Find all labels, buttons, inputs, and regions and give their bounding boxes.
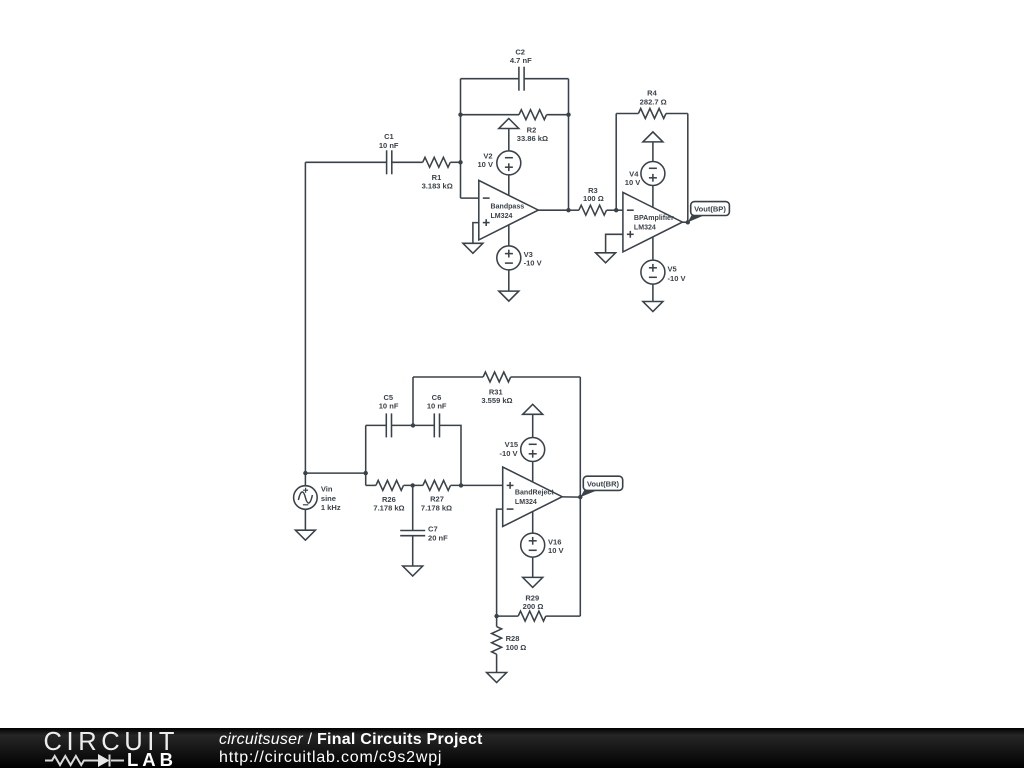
wire C5 to C6 <box>392 424 434 426</box>
node U1 output <box>566 208 570 212</box>
svg-text:33.86 kΩ: 33.86 kΩ <box>517 134 548 143</box>
wire left vertical R4 loop <box>615 114 617 211</box>
resistor R28 <box>492 627 527 655</box>
flag Vout(BP) <box>688 202 730 223</box>
footer bar <box>0 728 1024 768</box>
wire R2 row right <box>547 114 569 116</box>
svg-text:LM324: LM324 <box>634 224 656 231</box>
svg-text:3.559 kΩ: 3.559 kΩ <box>481 396 512 405</box>
node R1 junction <box>458 160 462 164</box>
svg-text:1 kHz: 1 kHz <box>321 503 341 512</box>
node mid res row <box>411 483 415 487</box>
wire R28 bottom lead <box>496 654 498 672</box>
wire R1 to node <box>450 161 460 163</box>
wire C7 to ground <box>412 536 414 566</box>
wire U2 V- pin to V5 <box>652 237 654 260</box>
node mid cap row <box>411 423 415 427</box>
voltage source V5 <box>641 260 686 284</box>
node R2 left <box>458 113 462 117</box>
wire to inverting input of U2 <box>616 209 623 211</box>
resistor R3 <box>579 186 607 215</box>
svg-text:10 V: 10 V <box>548 546 564 555</box>
wire V4 to flipped ground <box>652 142 654 162</box>
ground flipped above V4 <box>643 132 663 142</box>
svg-text:282.7 Ω: 282.7 Ω <box>640 97 667 106</box>
wire U1 V- pin to V3 <box>508 225 510 246</box>
ground below Vin <box>295 530 315 540</box>
svg-text:BandReject: BandReject <box>515 490 554 497</box>
resistor R31 <box>481 372 512 405</box>
capacitor C7 <box>400 525 448 543</box>
voltage source V4 <box>625 162 665 187</box>
node R2 right <box>566 113 570 117</box>
wire non-inverting input hook <box>473 223 479 244</box>
svg-text:100 Ω: 100 Ω <box>583 194 604 203</box>
wire right vertical R4 loop <box>687 114 689 223</box>
wire right vertical feedback <box>579 377 581 616</box>
svg-text:Bandpass: Bandpass <box>491 204 525 211</box>
svg-text:LM324: LM324 <box>491 213 513 220</box>
svg-text:sine: sine <box>321 494 336 503</box>
wire V2 to flipped ground <box>508 129 510 152</box>
resistor R27 <box>421 480 452 512</box>
svg-text:R27: R27 <box>430 495 444 504</box>
svg-text:LAB: LAB <box>127 749 177 769</box>
voltage source Vin sine <box>294 485 341 513</box>
resistor R29 <box>518 593 546 621</box>
op-amp U3 BandReject <box>503 467 563 527</box>
ground below V16 <box>523 577 543 587</box>
svg-text:Vout(BP): Vout(BP) <box>694 205 726 214</box>
wire to inverting input of U1 <box>461 197 479 199</box>
svg-text:10 V: 10 V <box>625 178 641 187</box>
svg-text:20 nF: 20 nF <box>428 534 448 543</box>
wire U3 V+ pin to V15 <box>532 461 534 481</box>
wire R29 row right <box>546 615 581 617</box>
svg-text:Vout(BR): Vout(BR) <box>587 480 620 489</box>
svg-text:Vin: Vin <box>321 485 333 494</box>
node left branch <box>364 471 368 475</box>
wire R3 to node <box>607 209 617 211</box>
resistor R2 <box>517 110 548 143</box>
wire U1 V+ pin to V2 <box>508 175 510 196</box>
wire right vertical C2/R2 loop <box>568 79 570 211</box>
svg-text:V5: V5 <box>668 265 677 274</box>
svg-text:-10 V: -10 V <box>524 259 542 268</box>
resistor R26 <box>373 480 404 512</box>
svg-text:LM324: LM324 <box>515 499 537 506</box>
wire output to R3 <box>569 209 579 211</box>
wire U1 output <box>538 209 568 211</box>
svg-text:-10 V: -10 V <box>500 449 518 458</box>
capacitor C2 <box>510 48 532 91</box>
wire left vertical cap-res branch <box>365 425 367 485</box>
wire V5 to ground <box>652 284 654 302</box>
op-amp U2 BPAmplifier <box>623 192 683 252</box>
wire R31 row left <box>413 376 483 378</box>
wire R2 row left <box>461 114 520 116</box>
logo CircuitLab <box>40 729 200 774</box>
node R3 junction <box>614 208 618 212</box>
wire R28 top lead <box>496 616 498 627</box>
wire U2 V+ pin to V4 <box>652 185 654 207</box>
svg-text:3.183 kΩ: 3.183 kΩ <box>422 181 453 190</box>
wire C1 to R1 <box>392 161 423 163</box>
svg-text:R4: R4 <box>647 89 657 98</box>
capacitor C6 <box>427 393 447 437</box>
wire Vin tap horizontal <box>305 472 365 474</box>
capacitor C5 <box>379 393 399 437</box>
wire Vin to ground <box>304 509 306 530</box>
flag Vout(BR) <box>580 476 622 497</box>
ground below V3 <box>499 291 519 301</box>
wire U2 non-inverting hook <box>606 234 623 253</box>
wire left vertical C2/R2 loop <box>460 79 462 198</box>
wire R31 left vertical <box>412 377 414 425</box>
wire C7 branch vertical <box>412 485 414 530</box>
svg-text:10 nF: 10 nF <box>379 141 399 150</box>
wire R4 row right <box>666 113 688 115</box>
voltage source V2 <box>477 151 520 175</box>
wire cap row left <box>366 424 386 426</box>
wire C1 row horizontal <box>305 161 386 163</box>
wire U3 inverting hook <box>497 509 503 616</box>
svg-text:10 nF: 10 nF <box>427 402 447 411</box>
svg-text:R28: R28 <box>506 634 520 643</box>
capacitor C1 <box>379 132 399 174</box>
svg-text:7.178 kΩ: 7.178 kΩ <box>421 504 452 513</box>
footer text <box>219 731 483 767</box>
node U3 output <box>578 495 582 499</box>
voltage source V16 <box>521 533 564 557</box>
svg-text:V15: V15 <box>505 440 518 449</box>
wire R4 row left <box>616 113 638 115</box>
node Vin tap <box>303 471 307 475</box>
wire U3 V- pin to V16 <box>532 512 534 534</box>
svg-text:BPAmplifier: BPAmplifier <box>634 215 674 222</box>
ground below C7 <box>403 566 423 576</box>
voltage source V15 <box>500 438 545 462</box>
wire input node vertical from C1 row down to Vin <box>304 162 306 486</box>
wire R29 row left <box>497 615 519 617</box>
ground flipped above V15 <box>523 404 543 414</box>
wire V16 to ground <box>532 557 534 578</box>
wire R26 to R27 <box>404 484 423 486</box>
resistor R4 <box>638 89 666 119</box>
ground below R28 <box>487 673 507 683</box>
wire C2 row left <box>461 78 519 80</box>
resistor R1 <box>422 157 453 190</box>
voltage source V3 <box>497 246 542 270</box>
svg-text:7.178 kΩ: 7.178 kΩ <box>373 504 404 513</box>
svg-text:100 Ω: 100 Ω <box>506 643 527 652</box>
wire res row left <box>366 484 376 486</box>
wire U2 output to node <box>682 221 687 223</box>
svg-text:200 Ω: 200 Ω <box>523 602 544 611</box>
node U2 output <box>686 220 690 224</box>
wire U3 output <box>562 496 580 498</box>
op-amp U1 Bandpass <box>479 180 539 240</box>
wire C2 row right <box>524 78 568 80</box>
node res row right <box>459 483 463 487</box>
wire C6 right down to res row <box>440 425 461 485</box>
svg-text:-10 V: -10 V <box>668 274 686 283</box>
ground flipped above V2 <box>499 119 519 129</box>
svg-text:C1: C1 <box>384 132 394 141</box>
wire V3 to ground <box>508 270 510 291</box>
svg-text:10 nF: 10 nF <box>379 402 399 411</box>
node R29 left junction <box>494 614 498 618</box>
wire R31 row right <box>511 376 581 378</box>
ground at U1 non-inverting input <box>463 243 483 253</box>
svg-text:10 V: 10 V <box>477 160 493 169</box>
wire R27 to op-amp input <box>451 484 503 486</box>
ground below V5 <box>643 302 663 312</box>
ground at U2 non-inverting input <box>596 253 616 263</box>
svg-text:4.7 nF: 4.7 nF <box>510 56 532 65</box>
wire V15 to flipped ground <box>532 414 534 437</box>
svg-text:C7: C7 <box>428 525 438 534</box>
